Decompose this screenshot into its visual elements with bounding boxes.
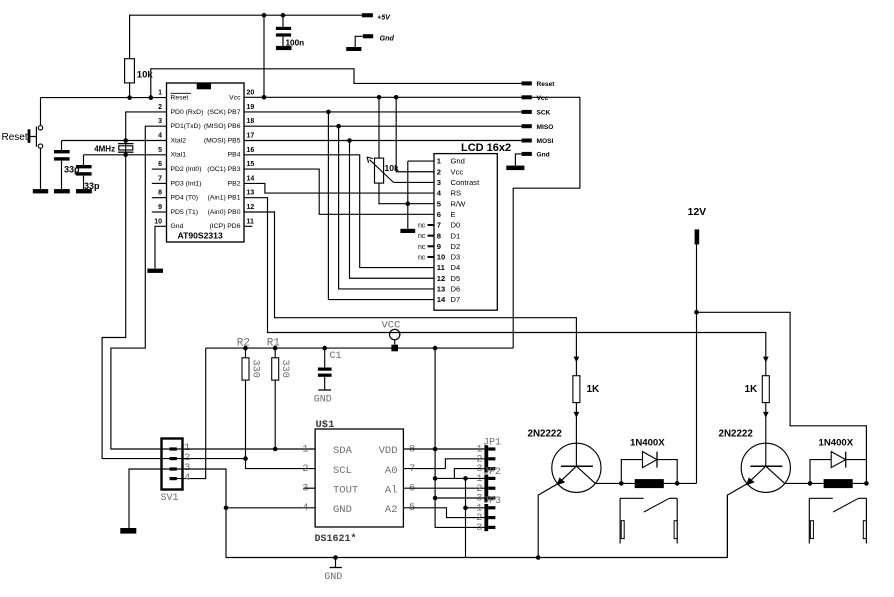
nc stub LCD pin 7 xyxy=(428,224,435,226)
capacitor C1 100n decoupling xyxy=(282,15,284,27)
JP2 pad pin 1 xyxy=(488,477,495,480)
overline on Reset label xyxy=(171,92,192,94)
wire VDD row to JP1 pin1 xyxy=(403,448,484,450)
svg-text:nc: nc xyxy=(418,254,426,261)
connector JP3 xyxy=(484,504,488,531)
svg-text:Xtal2: Xtal2 xyxy=(171,137,187,144)
junction SDA R1 xyxy=(273,447,278,452)
svg-text:14: 14 xyxy=(247,175,255,182)
resistor R3 10k pullup xyxy=(129,83,131,98)
junction rail DS supply xyxy=(433,346,438,351)
svg-text:(MISO) PB6: (MISO) PB6 xyxy=(204,123,241,130)
svg-text:1N400X: 1N400X xyxy=(630,437,665,448)
svg-text:GND: GND xyxy=(333,504,352,516)
resistor R5 1K xyxy=(573,376,580,403)
svg-text:5: 5 xyxy=(158,147,162,154)
wire SDA SV1 pin1 to DS1621 xyxy=(183,448,316,450)
wire MISO net pin18 to ISP xyxy=(244,125,522,127)
junction gnd rail Q1 emitter xyxy=(536,555,541,560)
wire MCU pin4 Xtal2 row xyxy=(62,140,167,142)
stub MCU pin 9 unconnected xyxy=(152,211,167,213)
wire A2 row jog to JP3 pin2 xyxy=(403,508,484,518)
junction gnd rail symbol xyxy=(333,555,338,560)
svg-text:15: 15 xyxy=(247,161,255,168)
wire Q1 collector to relay coil xyxy=(595,482,696,484)
svg-text:JP2: JP2 xyxy=(483,467,501,478)
ground bar top right xyxy=(346,47,361,51)
svg-text:D6: D6 xyxy=(451,285,461,294)
svg-text:17: 17 xyxy=(247,133,255,140)
svg-text:12: 12 xyxy=(247,204,255,211)
junction +5V rail 100n xyxy=(281,13,286,18)
svg-text:SCK: SCK xyxy=(537,110,551,117)
wire Vcc net pin20 to ISP and back to rail xyxy=(244,97,580,348)
wire ISP Gnd pad to ground xyxy=(515,154,521,166)
svg-text:10: 10 xyxy=(154,218,162,225)
svg-text:(SCK) PB7: (SCK) PB7 xyxy=(207,109,240,116)
capacitor C1 xyxy=(324,348,326,367)
svg-text:PB4: PB4 xyxy=(228,152,241,159)
svg-text:330: 330 xyxy=(250,360,261,378)
svg-text:8: 8 xyxy=(437,231,441,240)
wire gnd chain vertical xyxy=(465,478,467,557)
junction rail R1 xyxy=(273,346,278,351)
junction +5V rail drop xyxy=(262,13,267,18)
svg-text:R1: R1 xyxy=(267,337,281,349)
wire MCU pin10 Gnd xyxy=(155,226,167,268)
svg-text:2N2222: 2N2222 xyxy=(528,429,563,440)
ground bar under reset button xyxy=(33,189,48,193)
wire pot wiper to LCD Contrast xyxy=(394,181,435,183)
svg-text:13: 13 xyxy=(247,190,255,197)
svg-text:1K: 1K xyxy=(587,384,601,395)
svg-text:A0: A0 xyxy=(385,465,398,477)
ISP pad SCK xyxy=(522,110,532,114)
svg-text:GND: GND xyxy=(324,572,342,583)
diode D1 1N400X xyxy=(621,460,677,484)
svg-text:8: 8 xyxy=(158,190,162,197)
wire JP2 pin3 row xyxy=(435,497,484,499)
svg-text:TOUT: TOUT xyxy=(333,484,358,496)
svg-text:7: 7 xyxy=(437,221,441,230)
arrow junction below R5 xyxy=(574,412,580,418)
svg-text:4: 4 xyxy=(184,472,190,484)
relay K1 contacts xyxy=(619,498,621,543)
wire VDD chain vertical xyxy=(435,348,484,527)
arrow junction above R5 xyxy=(574,357,580,363)
svg-text:16: 16 xyxy=(247,147,255,154)
wire reset node to MCU pin 1 xyxy=(41,97,167,99)
svg-text:PD0 (RxD): PD0 (RxD) xyxy=(171,109,204,116)
JP2 pad pin 2 xyxy=(488,487,495,490)
wire A1 row to JP2 pin2 xyxy=(403,487,484,489)
svg-text:2: 2 xyxy=(158,104,162,111)
wire PB1 to Q1 base resistor xyxy=(244,198,766,376)
svg-text:LCD 16x2: LCD 16x2 xyxy=(461,142,511,154)
SV1 pad pin 2 xyxy=(170,457,177,460)
junction SCK to D7 xyxy=(326,110,331,115)
wire Q2 collector to relay coil xyxy=(785,482,867,484)
connector JP1 xyxy=(484,445,488,472)
wire LCD pin1 Gnd to ground xyxy=(408,160,434,162)
svg-text:18: 18 xyxy=(247,118,255,125)
junction reset/10k xyxy=(127,95,132,100)
ISP pad MOSI xyxy=(522,139,532,143)
wire R5 to Q1 base xyxy=(575,403,577,467)
ground symbol bottom xyxy=(335,558,337,568)
svg-text:4: 4 xyxy=(158,133,162,140)
svg-text:R2: R2 xyxy=(237,337,250,349)
wire MCU pin2 PD0 to crystal node xyxy=(126,112,167,141)
diode D2 1N400X xyxy=(810,460,866,484)
wire SCK drop to LCD D7 xyxy=(328,112,434,300)
svg-text:PD2 (Int0): PD2 (Int0) xyxy=(171,166,202,173)
JP2 pad pin 3 xyxy=(488,496,495,499)
wire LCD pin2 Vcc up xyxy=(396,97,434,171)
ground bar under C3 xyxy=(76,189,92,193)
svg-text:D3: D3 xyxy=(451,253,461,262)
svg-text:6: 6 xyxy=(158,161,162,168)
svg-text:A2: A2 xyxy=(385,504,398,516)
svg-text:11: 11 xyxy=(247,218,255,225)
svg-text:(ICP) PD6: (ICP) PD6 xyxy=(210,223,241,230)
svg-text:R/W: R/W xyxy=(451,199,467,208)
junction VDD drop xyxy=(433,447,438,452)
wire SCK net pin19 to ISP xyxy=(244,111,522,113)
wire Q1 emitter to gnd rail xyxy=(538,483,558,557)
wire pot bottom to R/W gnd node xyxy=(379,183,434,204)
SV1 pad pin 4 xyxy=(170,477,177,480)
JP1 pad pin 1 xyxy=(488,447,495,450)
svg-text:Reset: Reset xyxy=(537,81,556,88)
junction coil2 right xyxy=(864,481,869,486)
svg-text:2: 2 xyxy=(437,167,441,176)
svg-text:D2: D2 xyxy=(451,242,461,251)
relay K1 coil xyxy=(635,479,664,488)
svg-text:9: 9 xyxy=(158,204,162,211)
svg-text:PD1(TxD): PD1(TxD) xyxy=(171,123,201,130)
wire reset net to ISP Reset pad xyxy=(151,69,522,98)
svg-text:SDA: SDA xyxy=(333,445,353,457)
svg-text:PD4 (T0): PD4 (T0) xyxy=(171,195,199,202)
svg-text:nc: nc xyxy=(418,244,426,251)
wire +5V rail drop to Vcc xyxy=(263,15,265,97)
svg-text:Reset: Reset xyxy=(171,95,189,102)
svg-text:D1: D1 xyxy=(451,231,461,240)
JP3 pad pin 1 xyxy=(488,506,495,509)
stub MCU pin 7 unconnected xyxy=(152,182,167,184)
junction coil1 left xyxy=(619,481,624,486)
svg-text:7: 7 xyxy=(158,175,162,182)
svg-text:U$1: U$1 xyxy=(316,419,335,431)
ground bar under C2 xyxy=(54,189,70,193)
svg-text:(MOSI) PB5: (MOSI) PB5 xyxy=(204,137,241,144)
transistor Q1 2N2222 xyxy=(552,443,601,492)
wire +5V rail top xyxy=(130,15,362,59)
svg-text:PD3 (Int1): PD3 (Int1) xyxy=(171,180,202,187)
nc stub LCD pin 8 xyxy=(428,235,435,237)
svg-text:6: 6 xyxy=(437,210,441,219)
resistor R1 330 xyxy=(274,348,276,358)
ground bar under 100n xyxy=(276,46,292,50)
nc stub LCD pin 9 xyxy=(428,245,435,247)
stub DS1621 TOUT unconnected xyxy=(304,487,316,489)
junction crystal bottom xyxy=(123,153,128,158)
svg-text:E: E xyxy=(451,210,456,219)
wire VCC rail to SV1 pin4 xyxy=(170,348,206,479)
relay K2 contacts xyxy=(808,498,810,543)
svg-text:D5: D5 xyxy=(451,274,461,283)
wire MCU pin5 Xtal1 row xyxy=(84,154,167,156)
svg-text:Reset: Reset xyxy=(2,132,28,143)
svg-text:+5V: +5V xyxy=(377,12,391,21)
resistor R2 330 xyxy=(245,348,247,358)
wire SV1 pin3 gnd net right xyxy=(183,469,728,558)
wire PB0 to Q2 base resistor xyxy=(244,212,576,376)
ground bar LCD xyxy=(400,229,415,233)
svg-text:DS1621*: DS1621* xyxy=(315,533,357,545)
svg-text:3: 3 xyxy=(437,178,441,187)
junction gnd chain JP3 pin1 xyxy=(463,506,468,511)
svg-text:20: 20 xyxy=(247,90,255,97)
ISP pad Vcc xyxy=(522,95,532,99)
svg-text:SV1: SV1 xyxy=(161,493,179,504)
junction coil2 left xyxy=(808,481,813,486)
svg-text:AT90S2313: AT90S2313 xyxy=(178,231,223,241)
svg-text:Gnd: Gnd xyxy=(451,157,465,166)
JP3 pad pin 3 xyxy=(488,526,495,529)
wire PB4 to LCD D4 xyxy=(244,155,434,268)
supply pin 12V xyxy=(695,229,700,244)
svg-text:RS: RS xyxy=(451,189,462,198)
wire SCL SV1 pin2 to DS1621 xyxy=(183,459,316,469)
svg-text:C1: C1 xyxy=(330,351,342,362)
svg-text:3: 3 xyxy=(476,522,482,534)
wire Q2 emitter to gnd rail xyxy=(727,483,748,557)
stub MCU pin 6 unconnected xyxy=(152,168,167,170)
wire DS1621 GND row xyxy=(226,507,315,509)
svg-text:2N2222: 2N2222 xyxy=(719,429,754,440)
svg-text:D4: D4 xyxy=(451,263,461,272)
ground symbol under C1 xyxy=(318,389,331,391)
potentiometer R4 10k contrast xyxy=(375,158,384,183)
svg-text:19: 19 xyxy=(247,104,255,111)
wire MOSI drop to LCD D5 xyxy=(350,141,435,279)
wire MISO drop to LCD D6 xyxy=(339,126,434,289)
SV1 pad pin 3 xyxy=(170,467,177,470)
wire VCC rail xyxy=(206,347,514,349)
wire PB3 to LCD E xyxy=(244,169,434,214)
svg-text:Vcc: Vcc xyxy=(451,167,464,176)
stub MCU pin 8 unconnected xyxy=(152,197,167,199)
junction 12V branch xyxy=(694,310,699,315)
ISP pad MISO xyxy=(522,124,532,128)
svg-text:Xtal1: Xtal1 xyxy=(171,152,187,159)
svg-text:Contrast: Contrast xyxy=(451,178,481,187)
arrow junction above R6 xyxy=(763,357,769,363)
svg-text:10: 10 xyxy=(437,253,445,262)
svg-text:11: 11 xyxy=(437,263,446,272)
supply pad Gnd top xyxy=(363,34,373,38)
svg-text:MOSI: MOSI xyxy=(537,138,554,145)
SV1 pad pin 1 xyxy=(170,447,177,450)
svg-text:330: 330 xyxy=(279,360,290,378)
pushbutton S1 Reset xyxy=(40,98,42,126)
capacitor C2 33p xyxy=(61,141,63,151)
capacitor C3 33p xyxy=(83,155,85,165)
wire JP3 pin1 row xyxy=(466,507,485,509)
IC U2 AT90S2313 microcontroller xyxy=(167,83,245,242)
svg-text:(OC1) PB3: (OC1) PB3 xyxy=(207,166,240,173)
junction Vcc LCD xyxy=(394,95,399,100)
wire PB2 to LCD RS xyxy=(244,183,434,193)
svg-text:2: 2 xyxy=(302,463,308,475)
supply pad +5V xyxy=(362,13,373,17)
svg-text:GND: GND xyxy=(314,394,332,405)
svg-text:9: 9 xyxy=(437,242,441,251)
svg-text:nc: nc xyxy=(418,223,426,230)
junction MOSI to D5 xyxy=(347,138,352,143)
wire Vcc to potentiometer top xyxy=(378,97,380,158)
svg-text:SCL: SCL xyxy=(333,465,352,477)
svg-text:1N400X: 1N400X xyxy=(819,437,854,448)
resistor R6 1K xyxy=(762,376,769,403)
svg-text:4MHz: 4MHz xyxy=(94,144,115,153)
svg-text:VDD: VDD xyxy=(379,445,398,457)
ground bar MCU gnd xyxy=(147,269,163,273)
nc stub LCD pin 10 xyxy=(428,256,435,258)
power symbol VCC xyxy=(390,329,400,339)
ground bar SV1 xyxy=(120,528,136,534)
svg-text:Vcc: Vcc xyxy=(537,95,549,102)
svg-text:D7: D7 xyxy=(451,295,461,304)
junction gnd DS1621 xyxy=(224,506,229,511)
wire JP1 pin3 jog down xyxy=(454,469,484,479)
wire 12V down to relay 1 xyxy=(696,244,698,483)
junction Vcc pot xyxy=(377,95,382,100)
ISP pad Gnd xyxy=(522,152,532,156)
svg-text:12: 12 xyxy=(437,274,445,283)
transistor Q2 2N2222 xyxy=(741,443,790,492)
junction Vcc/+5V drop xyxy=(262,95,267,100)
crystal Q1 4MHz xyxy=(125,141,127,155)
svg-text:(Ain0) PB0: (Ain0) PB0 xyxy=(208,209,241,216)
svg-text:1: 1 xyxy=(302,443,308,455)
wire JP1 pin2 jog to A0 xyxy=(445,459,484,469)
svg-text:1: 1 xyxy=(158,90,162,97)
ISP pad Reset xyxy=(522,81,532,85)
wire MCU pin3 TxD to SV1 pin1 xyxy=(111,126,183,449)
junction rail R2 xyxy=(243,346,248,351)
svg-text:Gnd: Gnd xyxy=(171,223,184,230)
svg-text:1K: 1K xyxy=(745,384,759,395)
wire R6 to Q2 base xyxy=(765,403,767,467)
svg-text:Vcc: Vcc xyxy=(229,95,241,102)
svg-text:13: 13 xyxy=(437,285,445,294)
svg-text:4: 4 xyxy=(302,502,308,514)
svg-text:Gnd: Gnd xyxy=(380,33,395,42)
wire A0 row xyxy=(403,468,445,470)
svg-text:12V: 12V xyxy=(688,206,707,218)
JP1 pad pin 3 xyxy=(488,467,495,470)
connector SV1 xyxy=(162,439,183,490)
svg-text:VCC: VCC xyxy=(382,320,401,332)
wire xtal net down to SV1 pin2 xyxy=(102,155,182,459)
svg-text:Al: Al xyxy=(385,484,398,496)
svg-text:PD5 (T1): PD5 (T1) xyxy=(171,209,199,216)
svg-text:JP1: JP1 xyxy=(483,437,501,448)
junction gnd chain JP2 pin1 xyxy=(463,476,468,481)
IC U$1 DS1621 temperature sensor xyxy=(315,429,403,527)
svg-text:D0: D0 xyxy=(451,221,461,230)
relay K2 coil xyxy=(824,479,853,488)
stub MCU pin 11 unconnected xyxy=(244,225,252,227)
JP1 pad pin 2 xyxy=(488,457,495,460)
junction reset net to ISP xyxy=(149,95,154,100)
svg-text:PB2: PB2 xyxy=(228,180,241,187)
svg-text:3: 3 xyxy=(158,118,162,125)
ground bar ISP xyxy=(506,166,524,171)
svg-text:Gnd: Gnd xyxy=(537,152,550,159)
junction chain JP2 pin3 xyxy=(433,496,438,501)
junction R/W gnd xyxy=(406,201,411,206)
IC LCD1 LCD 16x2 display xyxy=(434,154,497,311)
junction SCL R2 xyxy=(243,456,248,461)
arrow junction below R6 xyxy=(763,412,769,418)
svg-text:(Ain1) PB1: (Ain1) PB1 xyxy=(208,195,241,202)
svg-text:nc: nc xyxy=(418,233,426,240)
connector JP2 xyxy=(484,475,488,502)
junction rail C1 xyxy=(322,346,327,351)
wire MOSI net pin17 to ISP xyxy=(244,140,522,142)
svg-text:14: 14 xyxy=(437,295,446,304)
wire JP2 pin1 row xyxy=(435,477,484,479)
svg-text:MISO: MISO xyxy=(537,124,554,131)
wire Gnd pad to ground bar xyxy=(355,36,363,47)
wire SV1 pin3 to ground bar xyxy=(129,469,183,528)
junction coil1 right xyxy=(675,481,680,486)
junction chain JP2 pin1 xyxy=(433,476,438,481)
JP3 pad pin 2 xyxy=(488,516,495,519)
wire 12V branch to relay 2 xyxy=(697,312,867,459)
junction crystal top xyxy=(123,138,128,143)
junction MISO to D6 xyxy=(336,124,341,129)
svg-text:JP3: JP3 xyxy=(483,496,501,507)
